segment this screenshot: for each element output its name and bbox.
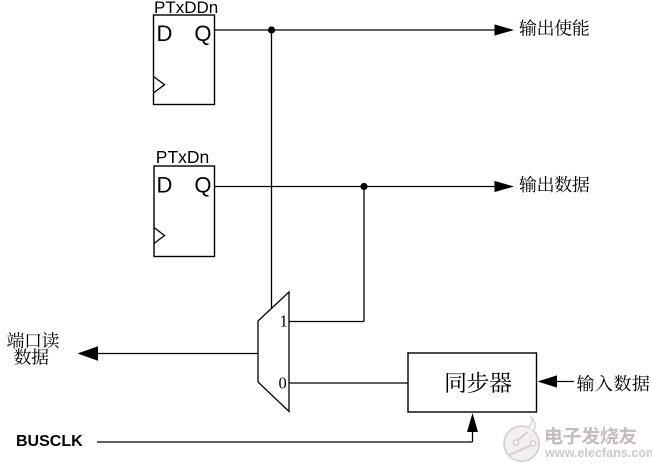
svg-text:Q: Q (194, 172, 211, 197)
svg-text:Q: Q (194, 21, 211, 46)
svg-text:D: D (157, 21, 173, 46)
svg-text:BUSCLK: BUSCLK (16, 433, 83, 450)
svg-text:PTxDDn: PTxDDn (154, 0, 218, 17)
svg-text:D: D (157, 172, 173, 197)
svg-text:PTxDn: PTxDn (156, 147, 209, 167)
svg-text:www.elecfans.com: www.elecfans.com (544, 446, 652, 460)
svg-text:0: 0 (279, 374, 287, 393)
svg-text:1: 1 (280, 312, 288, 331)
